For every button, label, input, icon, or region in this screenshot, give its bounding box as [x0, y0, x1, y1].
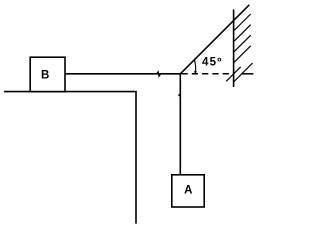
svg-text:45º: 45º: [202, 57, 222, 69]
block A: [172, 175, 204, 207]
block B: [30, 57, 65, 91]
wire rope junction to wall at 45 deg: [180, 5, 249, 74]
tick on vertical rope: [178, 94, 180, 96]
dashed line final segment past wall: [242, 73, 253, 75]
svg-text:A: A: [184, 184, 192, 196]
wall hatching: [226, 14, 252, 82]
ground / table top line: [4, 91, 137, 93]
wall line: [233, 10, 235, 88]
wire rope B to junction: [65, 73, 180, 75]
table edge vertical line: [135, 92, 137, 224]
tick on horizontal rope: [157, 72, 161, 77]
dashed reference line: [182, 73, 235, 75]
svg-text:B: B: [41, 69, 49, 81]
wire rope junction down to block A: [179, 74, 181, 175]
angle arc: [194, 60, 195, 73]
